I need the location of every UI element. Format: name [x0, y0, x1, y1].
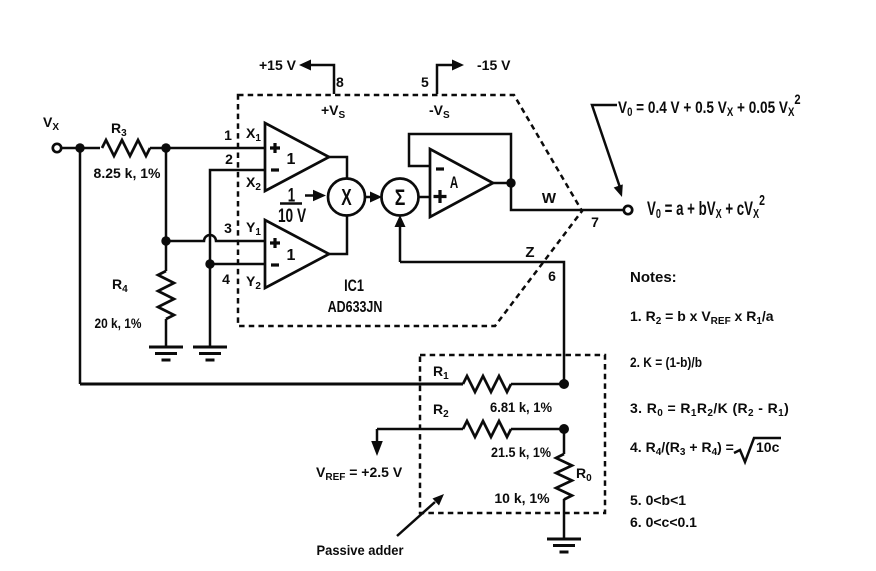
svg-text:8: 8 — [336, 74, 344, 90]
IC1 dashed boundary pentagon — [238, 95, 582, 326]
arrowhead +15V — [299, 60, 311, 71]
wire Y amp output to multiplier — [329, 216, 347, 254]
op-amp A plus sign — [434, 190, 447, 203]
wire node C to pin 3 with crossover hop — [166, 235, 265, 241]
svg-text:6. 0<c<0.1: 6. 0<c<0.1 — [630, 514, 697, 530]
ground under node D — [193, 347, 227, 360]
wire R3 to pin 1 — [150, 147, 265, 150]
input terminal Vx — [53, 144, 61, 152]
multiplier X symbol — [341, 185, 351, 211]
summer circle sigma — [382, 179, 419, 216]
output terminal pin 7 — [624, 206, 632, 214]
wire node D down to ground — [209, 264, 212, 346]
svg-text:10 V: 10 V — [278, 205, 306, 227]
svg-text:3: 3 — [224, 220, 232, 236]
node E junction dot — [559, 379, 569, 389]
node D junction dot — [205, 259, 214, 268]
scale factor 1/10V label — [278, 185, 306, 226]
arrow Z input into summer — [395, 215, 406, 262]
svg-text:1: 1 — [287, 151, 296, 168]
Y input buffer amp — [265, 220, 329, 288]
svg-text:X: X — [341, 185, 351, 211]
wire node F to R0 — [563, 429, 566, 454]
resistor R4 — [158, 271, 174, 319]
wire feedback loop around A — [409, 134, 511, 183]
wire Vx to node A — [62, 147, 100, 150]
node C junction dot — [161, 236, 170, 245]
wire node A down left side — [79, 148, 82, 384]
svg-text:IC1: IC1 — [344, 276, 364, 295]
resistor R3 — [102, 140, 150, 156]
svg-text:AD633JN: AD633JN — [328, 299, 383, 317]
svg-text:Notes:: Notes: — [630, 269, 677, 286]
IC1 part number AD633JN — [328, 299, 383, 317]
leader line to output formula — [592, 105, 620, 186]
resistor R0 — [556, 454, 572, 500]
node B junction dot — [161, 143, 170, 152]
resistor R1 — [463, 376, 511, 392]
svg-text:5. 0<b<1: 5. 0<b<1 — [630, 492, 686, 508]
arrowhead leader — [614, 184, 623, 197]
wire pin 2 from X2 vertical — [210, 170, 265, 264]
svg-text:2. K = (1-b)/b: 2. K = (1-b)/b — [630, 354, 702, 370]
pin 8 wire +Vs — [305, 65, 334, 94]
svg-text:5: 5 — [421, 74, 429, 90]
formula general output — [647, 191, 765, 221]
svg-text:2: 2 — [225, 151, 233, 167]
svg-text:Z: Z — [525, 244, 534, 261]
wire R4 to ground — [165, 319, 168, 346]
wire R2 to node F — [511, 428, 564, 431]
svg-text:21.5 k, 1%: 21.5 k, 1% — [491, 444, 551, 460]
wire summer to A amp — [419, 196, 431, 199]
node F junction dot — [559, 424, 569, 434]
svg-text:-15 V: -15 V — [477, 57, 511, 73]
resistor R2 — [463, 421, 511, 437]
op-amp A — [430, 149, 493, 217]
op-amp A label — [450, 174, 459, 193]
formula ideal output — [618, 92, 801, 119]
wire Z run to pin 6 — [400, 262, 564, 384]
svg-text:20 k, 1%: 20 k, 1% — [95, 315, 142, 331]
svg-text:1: 1 — [287, 247, 296, 264]
X input buffer amp — [265, 123, 329, 191]
svg-text:10 k, 1%: 10 k, 1% — [494, 490, 550, 506]
Y amp plus sign — [270, 238, 280, 248]
IC1 name label — [344, 276, 364, 295]
svg-text:10c: 10c — [756, 439, 780, 455]
wire R1 to node E — [511, 383, 564, 386]
wire node B down to node C — [165, 148, 168, 241]
arrow multiplier to summer — [365, 192, 382, 203]
arrow scale factor into multiplier — [305, 190, 326, 202]
X amp plus sign — [270, 143, 280, 153]
arrow VREF down — [371, 429, 383, 456]
svg-text:Σ: Σ — [395, 186, 406, 210]
wire pin 4 — [210, 263, 265, 266]
svg-text:8.25 k, 1%: 8.25 k, 1% — [94, 165, 161, 181]
op-amp A minus sign — [436, 167, 444, 170]
svg-text:1: 1 — [224, 127, 232, 143]
note 4 — [630, 438, 781, 462]
svg-text:6: 6 — [548, 268, 556, 284]
ground under R0 — [547, 539, 581, 552]
node A output junction dot — [506, 178, 515, 187]
multiplier circle X — [328, 179, 365, 216]
wire bottom run from Vx to R1 — [80, 383, 463, 386]
ground under R4 — [149, 347, 183, 360]
arrow passive adder pointer — [397, 494, 444, 536]
summer sigma symbol — [395, 186, 406, 210]
arrowhead -15V — [452, 60, 464, 71]
node A junction dot — [75, 143, 84, 152]
pin 5 wire -Vs — [437, 65, 455, 94]
Y amp minus sign — [271, 263, 279, 266]
svg-text:A: A — [450, 174, 459, 193]
svg-text:4: 4 — [222, 271, 230, 287]
svg-text:7: 7 — [591, 214, 599, 230]
svg-text:Passive adder: Passive adder — [317, 542, 405, 558]
wire A output — [493, 182, 511, 185]
passive adder dashed box — [420, 355, 605, 513]
wire node C down to R4 — [165, 241, 168, 271]
svg-text:W: W — [542, 190, 557, 207]
X amp minus sign — [271, 168, 279, 171]
svg-text:6.81 k, 1%: 6.81 k, 1% — [490, 399, 553, 415]
wire X amp output to multiplier — [329, 157, 347, 178]
svg-text:+15 V: +15 V — [259, 57, 297, 73]
wire R0 to ground — [563, 499, 566, 538]
wire VREF to R2 — [377, 428, 463, 431]
wire W output run — [511, 183, 624, 210]
